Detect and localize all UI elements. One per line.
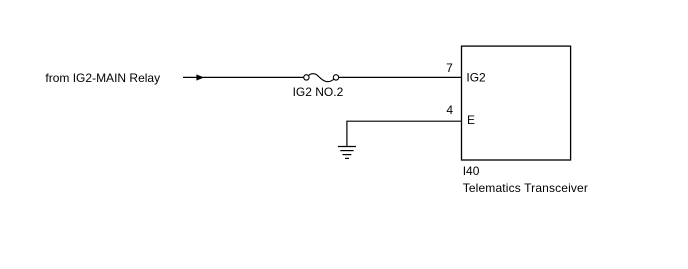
svg-text:I40: I40 [463,164,480,178]
svg-text:4: 4 [446,103,453,117]
ground symbol [338,147,356,159]
fuse IG2 NO.2 left terminal circle [304,75,309,80]
arrowhead [196,74,204,80]
fuse IG2 NO.2 right terminal circle [333,75,338,80]
svg-text:from IG2-MAIN Relay: from IG2-MAIN Relay [45,71,160,85]
svg-text:E: E [467,113,475,127]
wire: ground to pin 4 [347,121,462,146]
svg-text:7: 7 [446,61,453,75]
svg-text:Telematics Transceiver: Telematics Transceiver [463,181,588,195]
connector box I40 Telematics Transceiver [462,46,571,160]
fuse element wavy line [309,74,334,82]
wire: arrow segment to fuse [183,76,304,78]
wire: fuse to pin 7 [339,76,462,78]
svg-text:IG2: IG2 [466,71,486,85]
svg-text:IG2 NO.2: IG2 NO.2 [293,85,344,99]
